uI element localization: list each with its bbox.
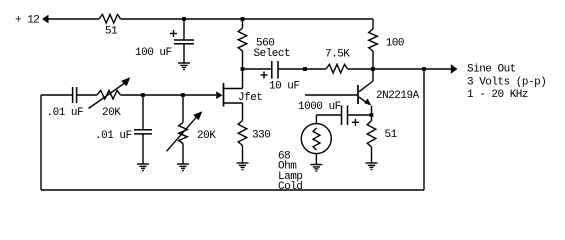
svg-text:7.5K: 7.5K [325, 49, 350, 61]
svg-text:.01 uF: .01 uF [47, 107, 84, 119]
svg-text:1 - 20 KHz: 1 - 20 KHz [467, 89, 528, 101]
svg-text:330: 330 [252, 130, 270, 142]
svg-text:100: 100 [386, 38, 404, 50]
svg-text:.01 uF: .01 uF [95, 130, 132, 142]
svg-text:+ 12: + 12 [15, 14, 39, 26]
svg-text:20K: 20K [102, 107, 121, 119]
svg-text:Select: Select [254, 48, 291, 60]
svg-text:51: 51 [105, 26, 118, 38]
svg-text:10 uF: 10 uF [269, 81, 300, 93]
svg-text:3 Volts (p-p): 3 Volts (p-p) [467, 77, 546, 89]
svg-text:100 uF: 100 uF [135, 47, 172, 59]
svg-text:20K: 20K [197, 130, 216, 142]
svg-text:1000 uF: 1000 uF [298, 101, 341, 113]
svg-text:51: 51 [385, 129, 398, 141]
svg-text:Cold: Cold [278, 181, 302, 193]
svg-text:2N2219A: 2N2219A [376, 90, 420, 102]
svg-text:Sine Out: Sine Out [467, 64, 516, 76]
svg-text:Jfet: Jfet [238, 92, 262, 104]
